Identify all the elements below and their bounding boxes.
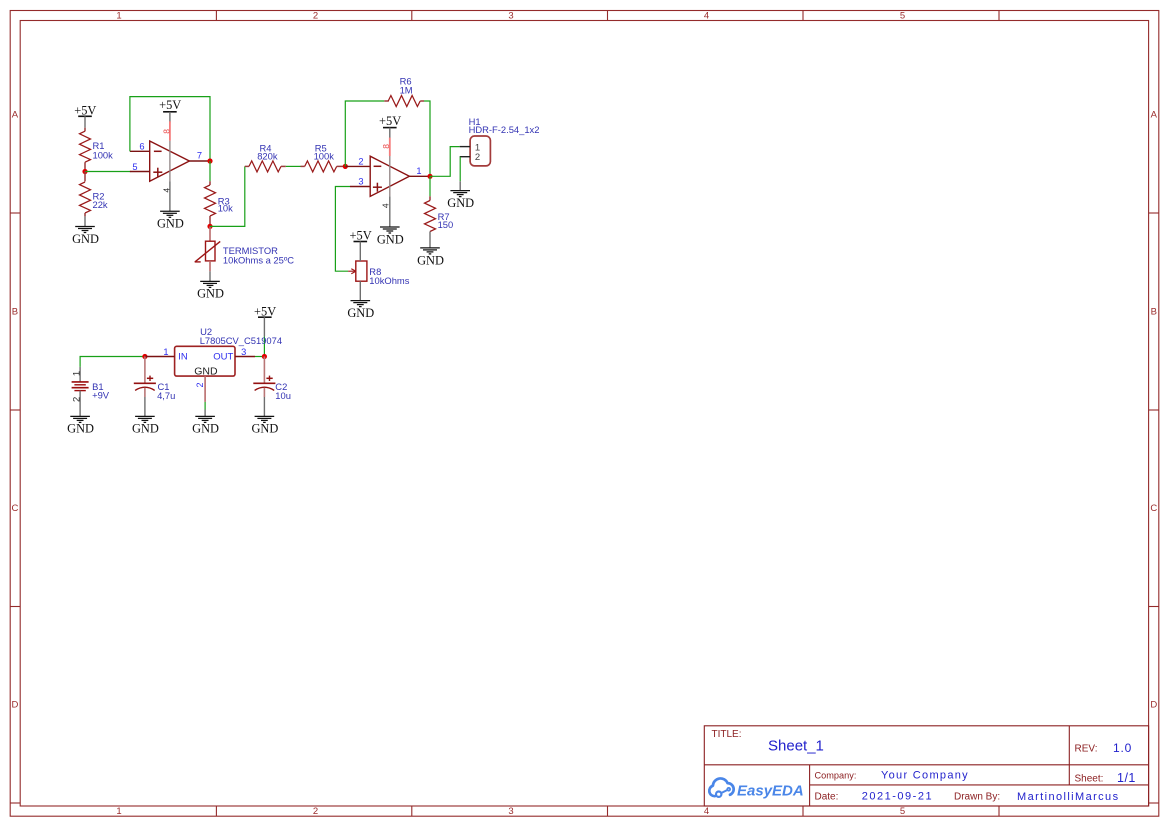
svg-text:10kOhms a 25ºC: 10kOhms a 25ºC <box>223 254 294 265</box>
wire (R4 to R5) <box>286 165 301 167</box>
op-amp U1 pin 6 <box>130 150 150 152</box>
svg-text:Your Company: Your Company <box>881 770 969 782</box>
ground (U3 pin 4) <box>380 227 400 233</box>
wire (+5V stub to R1) <box>84 116 86 127</box>
svg-text:Drawn By:: Drawn By: <box>954 792 1000 803</box>
node (U2 output) <box>262 354 267 359</box>
op-amp U1 pin 8 (power, highlighted) <box>169 121 171 141</box>
svg-text:1: 1 <box>71 371 82 376</box>
regulator U2 <box>175 346 235 376</box>
resistor R4 <box>245 165 249 167</box>
svg-text:8: 8 <box>381 144 391 149</box>
svg-text:1M: 1M <box>400 84 413 95</box>
svg-text:Company:: Company: <box>815 771 857 781</box>
svg-text:HDR-F-2.54_1x2: HDR-F-2.54_1x2 <box>469 124 540 135</box>
svg-text:7: 7 <box>197 151 202 161</box>
svg-text:L7805CV_C519074: L7805CV_C519074 <box>200 335 282 346</box>
node A (R1/R2 divider) <box>82 169 87 174</box>
wire (U2 gnd pin to ground) <box>204 402 206 410</box>
svg-text:GND: GND <box>157 217 184 231</box>
resistor R7 <box>429 196 431 200</box>
ground (below C1) <box>135 416 155 422</box>
svg-text:Sheet_1: Sheet_1 <box>768 738 824 755</box>
svg-text:1: 1 <box>163 347 168 357</box>
wire (U3 output to H1 pin 1) <box>430 147 460 177</box>
svg-text:+5V: +5V <box>74 104 96 118</box>
svg-text:GND: GND <box>251 422 278 436</box>
svg-text:5: 5 <box>132 162 137 172</box>
svg-text:2: 2 <box>313 11 318 22</box>
node (U3 output) <box>427 174 432 179</box>
svg-text:GND: GND <box>447 196 474 210</box>
wire (feedback U1 output to pin 6) <box>130 97 210 161</box>
svg-text:3: 3 <box>508 11 513 22</box>
title block <box>704 726 1148 806</box>
thermistor RT1 <box>195 226 221 271</box>
svg-text:C: C <box>11 503 18 514</box>
svg-text:GND: GND <box>192 422 219 436</box>
op-amp U1 pin 4 <box>169 181 171 211</box>
svg-text:2: 2 <box>358 156 363 166</box>
svg-text:4: 4 <box>704 806 709 817</box>
wire (+5V down to output node) <box>263 317 265 336</box>
svg-text:B: B <box>1151 307 1157 318</box>
wire (B1 to input node) <box>80 357 145 367</box>
node (U2 input) <box>142 354 147 359</box>
svg-text:22k: 22k <box>93 199 108 210</box>
svg-text:GND: GND <box>132 422 159 436</box>
svg-text:820k: 820k <box>257 150 278 161</box>
svg-text:A: A <box>1151 110 1158 121</box>
wire (R2 to ground) <box>84 216 86 226</box>
wire (H1 pin 2 to ground) <box>459 157 461 182</box>
svg-text:6: 6 <box>139 142 144 152</box>
op-amp U3 pin 4 <box>389 196 391 227</box>
connector H1 pin 1 <box>460 146 470 148</box>
resistor R1 <box>84 128 86 132</box>
ground (H1 pin 2) <box>450 191 470 197</box>
svg-text:2021-09-21: 2021-09-21 <box>862 790 933 802</box>
connector H1 <box>470 136 490 166</box>
svg-text:+9V: +9V <box>92 390 110 401</box>
svg-text:3: 3 <box>358 176 363 186</box>
svg-text:Sheet:: Sheet: <box>1075 774 1104 785</box>
ground (below RT1) <box>200 281 220 287</box>
wire (+5V to U3 pin 8) <box>389 128 391 139</box>
svg-text:4: 4 <box>704 11 709 22</box>
wire (node to op-amp U1 pin5) <box>85 171 130 173</box>
op-amp U1 pin 7 (output) <box>189 160 210 162</box>
resistor R3 <box>209 181 211 185</box>
regulator U2 pin 1 <box>145 356 175 358</box>
svg-text:+5V: +5V <box>379 114 401 128</box>
op-amp U3 <box>370 156 409 196</box>
svg-text:+5V: +5V <box>254 304 276 318</box>
wire (R6 feedback right) <box>424 101 430 176</box>
resistor R2 <box>84 172 86 182</box>
wire (RT1 to ground) <box>209 271 211 281</box>
ground (U2 pin 2) <box>195 416 215 422</box>
svg-text:B: B <box>12 307 18 318</box>
svg-text:GND: GND <box>417 253 444 267</box>
ground (below C2) <box>255 416 275 422</box>
svg-text:8: 8 <box>162 129 172 134</box>
title block texts <box>712 729 1136 803</box>
svg-text:TITLE:: TITLE: <box>712 729 742 740</box>
svg-text:5: 5 <box>900 806 905 817</box>
node (U1 output) <box>207 158 212 163</box>
resistor R6 <box>384 100 389 102</box>
svg-text:GND: GND <box>194 366 218 378</box>
svg-text:GND: GND <box>347 306 374 320</box>
battery B1 <box>72 367 89 417</box>
svg-text:1: 1 <box>116 806 121 817</box>
op-amp U3 pin 8 (power, highlighted) <box>389 138 391 156</box>
wire (R8 bottom to ground) <box>359 281 361 300</box>
regulator U2 pin 2 (GND) <box>204 376 206 402</box>
svg-text:EasyEDA: EasyEDA <box>737 783 804 800</box>
regulator U2 pin 3 <box>235 356 255 358</box>
ground (below R8) <box>351 301 371 307</box>
ground (U1 pin 4) <box>160 211 180 217</box>
resistor R5 <box>301 165 305 167</box>
svg-text:100k: 100k <box>93 149 114 160</box>
potentiometer R8 <box>348 261 367 281</box>
svg-text:10u: 10u <box>275 390 291 401</box>
capacitor C2 <box>253 357 275 417</box>
EasyEDA logo <box>709 778 733 796</box>
ground (below B1) <box>70 416 90 422</box>
svg-text:GND: GND <box>197 287 224 301</box>
svg-text:5: 5 <box>900 11 905 22</box>
svg-text:2: 2 <box>72 397 83 402</box>
wire (R6 feedback left) <box>345 101 384 166</box>
svg-text:1: 1 <box>416 166 421 176</box>
wire (R3 node to R4) <box>210 166 245 226</box>
connector H1 pin 2 <box>460 156 470 158</box>
svg-text:OUT: OUT <box>213 351 233 362</box>
svg-text:2: 2 <box>313 806 318 817</box>
svg-text:1/1: 1/1 <box>1117 771 1136 785</box>
svg-text:A: A <box>12 110 19 121</box>
op-amp U1 <box>150 141 190 181</box>
svg-text:D: D <box>11 700 18 711</box>
svg-text:Date:: Date: <box>815 792 839 803</box>
wire (U3 pin 3 to R8 wiper) <box>335 187 350 272</box>
wire (U2 out to +5V node) <box>255 356 264 358</box>
svg-text:150: 150 <box>438 219 454 230</box>
svg-text:1: 1 <box>116 11 121 22</box>
node (R3 / RT1 / R4) <box>207 224 212 229</box>
svg-text:3: 3 <box>508 806 513 817</box>
wire (+5V to R8 top) <box>359 242 361 262</box>
svg-text:+5V: +5V <box>350 229 372 243</box>
wire (+5V to U1 pin 8) <box>169 112 171 123</box>
svg-text:D: D <box>1150 700 1157 711</box>
svg-text:IN: IN <box>178 351 188 362</box>
svg-text:C: C <box>1150 503 1157 514</box>
svg-text:4,7u: 4,7u <box>157 390 175 401</box>
svg-text:GND: GND <box>67 422 94 436</box>
op-amp U3 pin 1 (output) <box>409 175 430 177</box>
ground (below R7) <box>420 248 440 254</box>
op-amp U3 pin 2 <box>345 165 370 167</box>
svg-text:100k: 100k <box>314 150 335 161</box>
svg-text:10k: 10k <box>218 202 233 213</box>
capacitor C1 <box>134 357 156 417</box>
svg-text:2: 2 <box>475 152 480 163</box>
wire (U3 output to R7) <box>429 176 431 196</box>
svg-text:10kOhms: 10kOhms <box>369 275 409 286</box>
svg-text:1.0: 1.0 <box>1113 741 1132 755</box>
svg-text:4: 4 <box>381 203 391 208</box>
svg-text:GND: GND <box>377 232 404 246</box>
svg-text:2: 2 <box>195 382 205 387</box>
node (U3 pin 2 / R5 / R6) <box>343 164 348 169</box>
svg-text:4: 4 <box>162 188 172 193</box>
op-amp U1 pin 5 <box>130 171 150 173</box>
wire (U1 output down to R3) <box>209 161 211 181</box>
svg-text:MartinolliMarcus: MartinolliMarcus <box>1017 791 1119 803</box>
svg-text:3: 3 <box>241 347 246 357</box>
ground (below R2) <box>75 227 95 233</box>
svg-text:GND: GND <box>72 232 99 246</box>
svg-text:REV:: REV: <box>1075 744 1098 755</box>
svg-text:+5V: +5V <box>159 98 181 112</box>
op-amp U3 pin 3 <box>350 186 370 188</box>
